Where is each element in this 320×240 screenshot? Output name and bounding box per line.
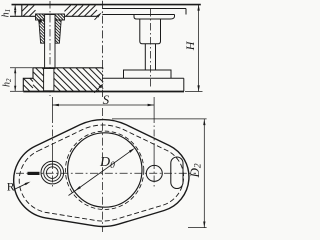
svg-text:R: R [7, 180, 15, 194]
right post centerline [149, 9, 151, 88]
left bushing outer circle [41, 161, 64, 184]
upper shoe section hatch left of bushing [22, 5, 36, 16]
dimension H line [198, 5, 200, 92]
plan horizontal centerline [16, 172, 196, 174]
right hole vertical centerline / S extension [153, 97, 155, 189]
upper shoe line y8.5 right [102, 8, 186, 10]
h2 top extension line [10, 67, 33, 69]
upper shoe left edge [21, 5, 23, 17]
lower shoe bottom line [23, 91, 184, 93]
dimension S line [52, 104, 154, 106]
main vertical centerline [101, 1, 103, 97]
left guide post [45, 15, 55, 69]
section cut thick bar [28, 172, 40, 175]
left post centerline [49, 1, 51, 96]
capsule slot right lug [171, 157, 183, 189]
upper shoe section hatch right of bushing [65, 5, 98, 16]
upper shoe right edge [185, 9, 187, 15]
lower shoe top surface left [33, 67, 103, 69]
junction dot [38, 19, 42, 23]
bushing body outline right [140, 19, 161, 44]
lower shoe section hatch [23, 68, 103, 92]
lower shoe stepped left edge [23, 68, 33, 92]
bushing flange outline right [134, 15, 175, 20]
svg-text:S: S [103, 92, 110, 107]
lower shoe lug top right [102, 77, 183, 79]
plan dashed inner obround [19, 125, 183, 221]
left bushing middle circle [44, 164, 61, 181]
plan vertical centerline [102, 108, 104, 232]
right post hole circle [146, 165, 162, 181]
dimension h2 line [14, 68, 16, 92]
right guide post [145, 44, 155, 70]
left hole vertical centerline / S extension [51, 97, 53, 189]
plan outer obround outline [14, 120, 189, 227]
left bushing bore circle [47, 167, 59, 179]
plan D0 circle [68, 133, 142, 207]
D2 top extension line [112, 118, 207, 120]
bushing flange hatched [36, 14, 65, 20]
upper shoe bottom right [102, 14, 174, 16]
plan dashed waste-hole circle [65, 131, 143, 209]
upper shoe bottom line [10, 15, 97, 17]
h2 bottom extension line [10, 90, 23, 92]
leader arrow lower [94, 85, 101, 92]
lower shoe boss right [124, 70, 172, 78]
upper shoe top surface line [12, 4, 201, 6]
D2 bottom extension line [188, 227, 207, 229]
D0 diameter dimension line [69, 149, 134, 195]
svg-text:H: H [183, 40, 197, 51]
dimension D2 line [203, 119, 205, 227]
leader arrow upper [95, 14, 101, 20]
bushing flange seat line [36, 13, 65, 15]
lower shoe right edge [183, 78, 185, 91]
left post through lower shoe [44, 69, 54, 91]
H bottom extension line [185, 91, 203, 93]
dimension h1 line [14, 5, 16, 17]
R leader line [14, 183, 28, 190]
bushing body left wall [39, 20, 45, 43]
bushing body right wall [55, 20, 61, 43]
